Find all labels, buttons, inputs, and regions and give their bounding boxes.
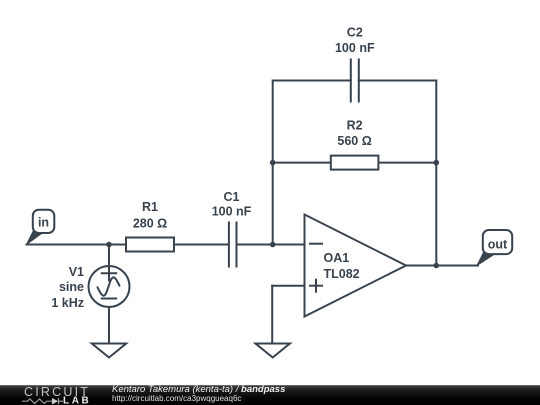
svg-text:560 Ω: 560 Ω	[337, 134, 371, 148]
junction node: right vertical / R2 rail	[434, 160, 440, 166]
wire: feedback right vertical	[435, 81, 437, 266]
ground below V1	[92, 344, 126, 358]
capacitor C2	[351, 60, 359, 102]
label V1 name/value	[51, 265, 84, 310]
svg-text:V1: V1	[69, 265, 84, 279]
wire: V1 bottom lead to ground	[108, 307, 110, 344]
svg-text:280 Ω: 280 Ω	[133, 216, 167, 230]
flag out	[477, 230, 512, 266]
junction node: left vertical / R2 rail	[270, 160, 276, 166]
wire: C1 to op-amp inverting input	[238, 244, 305, 246]
junction node: V1 tap on input net	[106, 242, 112, 248]
wire: non-inverting input vertical to ground	[271, 286, 273, 344]
svg-text:C2: C2	[347, 26, 363, 40]
svg-text:TL082: TL082	[324, 267, 360, 281]
svg-text:R1: R1	[142, 200, 158, 214]
footer bar	[0, 385, 540, 405]
wire: top rail right of C2	[359, 80, 437, 82]
resistor R1	[126, 238, 174, 252]
wire: op-amp output to out-flag	[406, 265, 478, 267]
svg-text:C1: C1	[224, 190, 240, 204]
label OA1 name/type	[324, 251, 360, 281]
wire: R2 rail left segment	[273, 162, 331, 164]
CircuitLab logo	[0, 385, 110, 405]
resistor R2	[331, 156, 379, 170]
voltage source V1	[89, 266, 130, 307]
junction node: feedback tap on input net	[270, 242, 276, 248]
svg-text:out: out	[488, 237, 508, 251]
label C2 name/value	[335, 26, 375, 55]
wire: R1 to C1	[174, 244, 228, 246]
svg-text:100 nF: 100 nF	[335, 41, 375, 55]
op-amp OA1	[305, 215, 407, 317]
label R2 name/value	[337, 119, 371, 149]
svg-text:1 kHz: 1 kHz	[51, 296, 84, 310]
wire: input net from in-flag to R1	[27, 244, 127, 246]
wire: non-inverting input horizontal	[272, 285, 304, 287]
flag in	[27, 210, 55, 245]
label R1 name/value	[133, 200, 167, 230]
wire: R2 rail right segment	[378, 162, 436, 164]
wire: V1 top lead	[108, 245, 110, 268]
svg-text:sine: sine	[59, 280, 84, 294]
wire: feedback left vertical	[272, 81, 274, 245]
footer text: author / project	[112, 385, 285, 395]
svg-text:R2: R2	[347, 119, 363, 133]
junction node: output / right vertical	[434, 263, 440, 269]
label C1 name/value	[212, 190, 252, 218]
svg-text:100 nF: 100 nF	[212, 204, 252, 218]
svg-text:in: in	[38, 216, 49, 230]
wire: top rail left of C2	[273, 80, 351, 82]
svg-text:OA1: OA1	[324, 251, 350, 265]
footer text: url	[112, 395, 241, 403]
capacitor C1	[229, 223, 237, 267]
ground at non-inverting input	[256, 344, 290, 358]
svg-text:LAB: LAB	[63, 396, 91, 405]
